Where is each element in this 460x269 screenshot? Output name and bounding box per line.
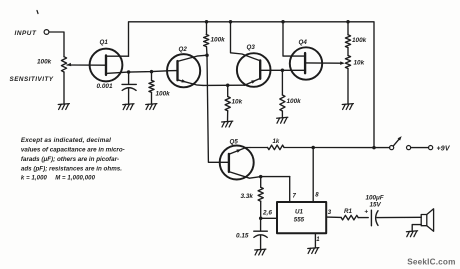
wire: Q1 source node	[129, 71, 178, 73]
svg-text:k = 1,000: k = 1,000	[21, 175, 48, 181]
svg-text:0.001: 0.001	[97, 83, 113, 90]
resistor 100k (divider top, right)	[345, 22, 366, 48]
ground (0.15 cap)	[255, 249, 266, 255]
+9V terminal	[429, 146, 451, 153]
resistor 3.3k	[241, 177, 264, 219]
svg-text:2,6: 2,6	[262, 210, 272, 217]
wire: Q2 collector down to Q5 base	[207, 55, 229, 162]
svg-text:100μF: 100μF	[366, 195, 384, 202]
svg-text:100k: 100k	[156, 91, 171, 98]
speaker	[412, 209, 433, 232]
ground (Q1 load resistor)	[146, 104, 157, 110]
ground (Q3 base resistor)	[277, 117, 288, 123]
wire: pot wiper to Q1 gate	[67, 64, 106, 66]
pin 1	[315, 233, 320, 248]
IC U1 555	[277, 202, 326, 233]
svg-text:Except as indicated, decimal: Except as indicated, decimal	[21, 137, 111, 144]
pin 8	[313, 148, 319, 203]
svg-text:555: 555	[294, 217, 305, 224]
ground (10k emitter resistor)	[222, 121, 233, 127]
svg-text:SENSITIVITY: SENSITIVITY	[10, 76, 54, 83]
svg-text:R1: R1	[344, 208, 352, 215]
svg-text:Q4: Q4	[299, 39, 308, 46]
transistor Q4 (JFET, mirrored)	[283, 22, 341, 80]
resistor 100k (Q1 load)	[149, 72, 170, 104]
svg-text:INPUT: INPUT	[15, 30, 37, 37]
node: Q3 base / 100k / Q4 source	[281, 69, 285, 73]
ground (pot)	[58, 104, 69, 110]
note text block	[21, 137, 125, 181]
wire: to pin 7	[261, 176, 290, 178]
node: +9V line	[372, 146, 376, 150]
svg-text:100k: 100k	[287, 98, 302, 105]
pin 7	[290, 177, 297, 202]
svg-text:Q5: Q5	[230, 139, 239, 146]
node: rail / Q2 collector resistor	[205, 20, 209, 24]
svg-text:1k: 1k	[273, 139, 280, 145]
ground (pin 1)	[308, 248, 319, 254]
transistor Q1 (JFET)	[90, 39, 129, 81]
node: 100k junction	[150, 70, 154, 74]
resistor 100k (Q2 collector)	[204, 22, 226, 55]
resistor 100k (Q3 base pulldown)	[280, 70, 301, 117]
resistor 10k (divider bottom, right)	[345, 48, 364, 104]
node: Q1 source / C junction	[127, 70, 131, 74]
wiper arrow into 10k	[340, 61, 345, 65]
svg-text:+: +	[364, 208, 368, 215]
pin 3	[326, 210, 341, 218]
node: Q2 collector	[205, 53, 209, 57]
wire: input to potentiometer	[49, 32, 64, 57]
input terminal	[15, 30, 49, 37]
ground (divider)	[342, 104, 353, 110]
wire: pins 2,6	[261, 210, 277, 219]
svg-text:3.3k: 3.3k	[241, 193, 254, 200]
svg-text:10k: 10k	[354, 60, 365, 67]
svg-text:M = 1,000,000: M = 1,000,000	[55, 175, 95, 181]
transistor Q5	[220, 139, 261, 180]
ground (speaker)	[406, 231, 417, 237]
resistor 10k (emitter)	[225, 85, 243, 121]
transistor Q3 (mirrored)	[231, 22, 271, 87]
svg-text:values of capacitance are in m: values of capacitance are in micro-	[21, 147, 125, 154]
resistor R1	[341, 208, 368, 220]
wire: Q2/Q3 emitter bus	[203, 84, 245, 86]
svg-text:15V: 15V	[370, 202, 382, 209]
svg-text:SeekIC.com: SeekIC.com	[407, 257, 455, 266]
ground (0.001 cap)	[123, 104, 134, 110]
node: pins 2,6 / 0.15 cap	[259, 217, 263, 221]
node: rail / Q4 drain	[281, 20, 285, 24]
wire: pot bottom to ground	[63, 72, 65, 104]
capacitor 0.15	[236, 218, 267, 249]
svg-text:U1: U1	[295, 209, 303, 216]
node: rail / divider	[346, 20, 350, 24]
svg-text:ads (pF); resistances are in o: ads (pF); resistances are in ohms.	[21, 165, 122, 172]
svg-text:100k: 100k	[211, 37, 226, 44]
wire: 1k to +9V switch node	[313, 147, 374, 149]
svg-text:0.15: 0.15	[236, 232, 249, 239]
capacitor 0.001	[97, 72, 137, 104]
svg-text:100k: 100k	[37, 59, 52, 66]
speck artifact	[37, 11, 38, 14]
svg-text:10k: 10k	[232, 99, 243, 106]
svg-text:Q3: Q3	[247, 44, 256, 51]
wire: top +9V supply rail	[129, 22, 375, 148]
potentiometer 100k SENSITIVITY	[10, 57, 72, 83]
switch S1	[374, 136, 429, 150]
node: Q5 emitter / 3.3k / pin7	[259, 175, 263, 179]
svg-text:100k: 100k	[352, 37, 367, 44]
transistor Q2 (NPN)	[167, 46, 207, 87]
node: pin8 tap	[311, 146, 315, 150]
capacitor 100uF 15V	[364, 195, 421, 226]
resistor 1k	[250, 139, 313, 150]
node: rail / Q3 collector	[229, 20, 233, 24]
svg-text:Q1: Q1	[100, 39, 109, 46]
svg-text:+9V: +9V	[437, 146, 451, 153]
wire: Q3 base / Q4 source	[260, 69, 305, 71]
svg-text:farads (μF); others are in pic: farads (μF); others are in picofar-	[21, 156, 119, 163]
svg-text:Q2: Q2	[179, 46, 188, 53]
node: emitter bus / 10k	[226, 84, 230, 88]
